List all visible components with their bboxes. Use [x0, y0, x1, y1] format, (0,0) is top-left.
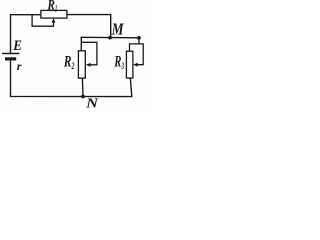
- wire: R1 right lead to corner M riser down to bus: [67, 15, 111, 38]
- wire: left riser from battery top to top-left corner: [11, 15, 41, 54]
- svg-text:r: r: [17, 59, 22, 73]
- svg-text:M: M: [111, 20, 125, 39]
- wire: battery bottom down and bottom bus to R3: [11, 60, 132, 96]
- battery negative thick plate (r): [5, 57, 16, 60]
- wire: R2 bottom lead: [81, 78, 84, 96]
- R2 slider arrowhead: [86, 63, 91, 67]
- node M junction dot: [108, 36, 112, 40]
- wire: R2 top lead: [80, 37, 82, 51]
- R3 top lead and slider bracket wire: [130, 44, 144, 65]
- battery E long plate: [2, 53, 19, 55]
- svg-text:N: N: [85, 96, 99, 111]
- svg-text:E: E: [12, 38, 22, 54]
- R3 top stub from bus: [138, 38, 140, 44]
- resistor R3 box: [126, 51, 132, 78]
- node N junction dot: [81, 95, 85, 99]
- R3 slider arrowhead: [133, 63, 138, 67]
- resistor R1 box: [41, 10, 67, 18]
- R1 slider tap wire: [32, 15, 53, 27]
- R1 slider arrowhead: [52, 18, 56, 23]
- junction dot at bus right end: [137, 36, 141, 40]
- wire: top bus from R2 top to R3 stub: [81, 36, 139, 39]
- resistor R2 box: [78, 51, 85, 78]
- R2 slider bracket wire: [81, 42, 97, 65]
